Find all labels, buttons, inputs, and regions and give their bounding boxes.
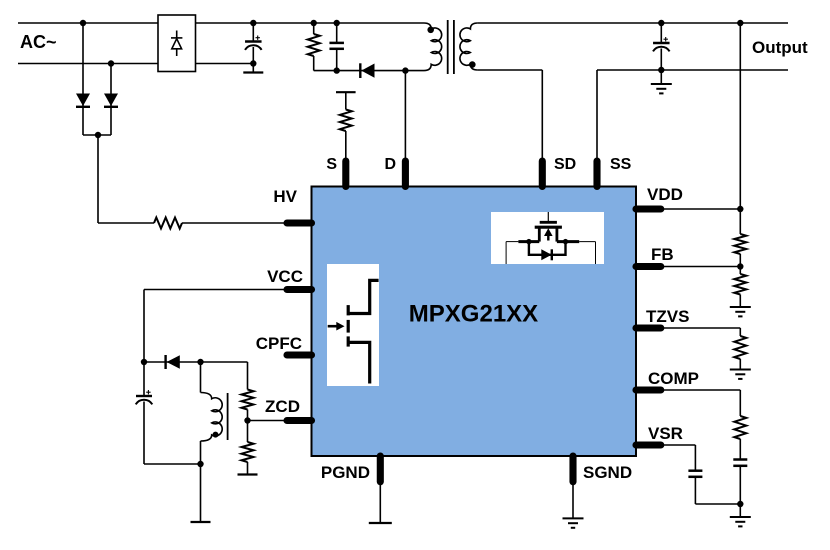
pin SGND: [569, 456, 576, 482]
wire AC line bottom rail: [18, 63, 253, 65]
wire VSR feed: [640, 444, 695, 446]
wire S pin lead: [345, 131, 347, 164]
resistor ZCD upper: [242, 390, 254, 410]
svg-text:HV: HV: [273, 187, 297, 206]
wire snubber R bottom lead: [313, 56, 315, 71]
svg-text:AC~: AC~: [20, 32, 57, 52]
wire HV feed right segment: [182, 222, 300, 224]
wire output top rail: [478, 22, 788, 24]
transformer secondary winding: [460, 23, 478, 70]
resistor FB upper: [734, 234, 746, 254]
node COMP VSR join: [737, 501, 743, 507]
resistor HV series: [154, 218, 182, 229]
terminal ZCD divider return: [238, 473, 258, 475]
diode VCC rectifier: [166, 355, 180, 369]
terminal aux return: [191, 521, 211, 523]
svg-text:VDD: VDD: [647, 185, 683, 204]
wire AC line top rail: [18, 22, 424, 24]
svg-text:CPFC: CPFC: [256, 334, 302, 353]
ground SGND: [563, 518, 584, 527]
wire HV feed left segment: [98, 222, 154, 224]
wire FB pin feed: [640, 266, 740, 268]
wire bulk cap bottom stub: [252, 47, 254, 72]
svg-text:SGND: SGND: [583, 463, 632, 482]
wire snubber C bottom lead: [336, 49, 338, 71]
wire aux winding top lead: [200, 362, 202, 393]
wire TZVS drop: [739, 328, 741, 336]
resistor COMP: [734, 416, 746, 439]
wire bulk cap top stub: [252, 23, 254, 42]
wire COMP drop: [739, 390, 741, 416]
pin TZVS: [636, 324, 661, 331]
terminal bulk cap return: [243, 71, 263, 73]
node bulk cap bottom: [250, 60, 256, 66]
svg-text:TZVS: TZVS: [646, 307, 689, 326]
svg-text:VCC: VCC: [267, 267, 303, 286]
wire VCC diode rail: [144, 361, 248, 363]
transistor internal HV MOSFET: [327, 264, 379, 386]
pin CPFC: [287, 351, 312, 358]
ground TZVS: [730, 370, 751, 379]
node output takeoff: [737, 20, 743, 26]
wire COMP mid lead: [739, 439, 741, 460]
resistor TZVS: [734, 336, 746, 359]
transformer primary winding: [424, 23, 442, 71]
node snubber C tap: [334, 20, 340, 26]
wire SGND lead: [572, 482, 574, 519]
node aux winding top: [197, 359, 203, 365]
wire VSR bottom lead: [694, 477, 696, 504]
node aux polarity dot: [213, 432, 219, 438]
wire VSR join rail: [695, 503, 740, 505]
wire aux bottom rail: [144, 463, 201, 465]
resistor ZCD lower: [242, 442, 254, 462]
pin ZCD: [287, 417, 312, 424]
wire surge diode join: [83, 134, 111, 136]
wire VCC vertical: [143, 290, 145, 363]
svg-text:MPXG21XX: MPXG21XX: [409, 301, 538, 328]
transistor internal SD/SS switch: [491, 212, 604, 264]
node VDD tap: [737, 206, 743, 212]
node FB tap: [737, 263, 743, 269]
node output cap bottom: [658, 67, 664, 73]
capacitor bulk electrolytic: [245, 36, 262, 50]
resistor S series: [340, 110, 352, 132]
wire surge diode branch 2 drop: [110, 64, 112, 136]
wire aux winding bottom lead: [200, 441, 202, 522]
wire VCC cap bottom stub: [143, 402, 145, 465]
capacitor VSR: [688, 471, 702, 477]
svg-text:S: S: [326, 156, 337, 173]
bridge rectifier: [158, 15, 196, 72]
pin PGND: [377, 456, 384, 482]
wire FB divider top: [739, 23, 741, 234]
wire output cap bottom stub: [660, 49, 662, 84]
resistor FB lower: [734, 274, 746, 295]
capacitor COMP: [733, 460, 747, 466]
pin VDD: [636, 205, 661, 212]
wire HV feed vertical: [97, 135, 99, 223]
pin SS: [593, 161, 600, 187]
wire ZCD divider mid: [247, 410, 249, 443]
wire TZVS bottom lead: [739, 359, 741, 369]
svg-text:SS: SS: [610, 156, 632, 173]
transformer core: [448, 20, 454, 74]
wire snubber R top lead: [313, 23, 315, 34]
wire PGND lead: [379, 482, 381, 523]
node VCC cap top: [141, 359, 147, 365]
wire VCC cap top stub: [143, 362, 145, 397]
node bulk cap top: [250, 20, 256, 26]
pin HV: [287, 219, 312, 226]
wire TZVS feed: [640, 327, 740, 329]
node snubber C bottom: [334, 67, 340, 73]
wire snubber C top lead: [336, 23, 338, 43]
terminal S network top: [336, 91, 356, 93]
wire surge diode branch 1 drop: [82, 23, 84, 135]
node drain junction: [402, 67, 408, 73]
svg-text:Output: Output: [752, 38, 808, 57]
capacitor snubber: [329, 43, 344, 49]
svg-text:FB: FB: [651, 245, 674, 264]
svg-text:PGND: PGND: [321, 463, 370, 482]
node aux return: [197, 461, 203, 467]
terminal PGND return: [369, 522, 392, 524]
wire FB divider bottom lead: [739, 295, 741, 307]
node AC top tap: [80, 20, 86, 26]
svg-text:D: D: [384, 156, 396, 173]
pin VSR: [636, 441, 661, 448]
node snubber R tap: [311, 20, 317, 26]
wire FB divider mid: [739, 254, 741, 274]
svg-text:COMP: COMP: [648, 369, 699, 388]
op-amp U1 MPXG21XX body: [312, 187, 637, 457]
wire primary bottom lead: [405, 70, 424, 72]
pin D: [402, 161, 409, 187]
svg-text:VSR: VSR: [648, 424, 683, 443]
capacitor output electrolytic: [653, 37, 670, 51]
capacitor VCC electrolytic: [136, 390, 153, 404]
node surge join: [95, 132, 101, 138]
transformer aux core: [227, 393, 229, 440]
wire S network upper lead: [345, 92, 347, 109]
wire output bottom rail: [597, 69, 788, 71]
wire VDD feed: [640, 208, 740, 210]
diode snubber: [360, 63, 374, 78]
ground COMP: [730, 517, 751, 526]
pin S: [342, 161, 349, 187]
wire ZCD divider bottom lead: [247, 462, 249, 474]
diode surge D1: [76, 94, 90, 107]
wire D pin drop: [404, 71, 406, 164]
wire SD pin drop: [541, 70, 543, 164]
ground FB divider: [730, 307, 751, 316]
resistor snubber: [308, 34, 320, 56]
svg-text:SD: SD: [554, 156, 576, 173]
wire VSR drop: [694, 445, 696, 471]
pin COMP: [636, 386, 661, 393]
inductor aux winding: [201, 393, 223, 442]
wire secondary bottom lead: [478, 69, 543, 71]
wire ZCD divider drop: [247, 362, 249, 390]
wire COMP feed: [640, 389, 740, 391]
svg-text:ZCD: ZCD: [265, 397, 300, 416]
pin SD: [539, 161, 546, 187]
wire COMP bottom lead: [739, 466, 741, 517]
wire VCC feed: [144, 289, 300, 291]
node secondary polarity dot: [469, 61, 476, 68]
node output cap top: [658, 20, 664, 26]
wire ZCD pin feed: [248, 420, 301, 422]
wire snubber bottom rail: [314, 70, 406, 72]
wire SS pin riser: [596, 70, 598, 164]
pin VCC: [287, 286, 312, 293]
ground output return: [651, 84, 672, 93]
pin FB: [636, 263, 661, 270]
diode surge D2: [104, 94, 118, 107]
node ZCD tap: [244, 417, 250, 423]
wire output cap top stub: [660, 23, 662, 44]
node AC bottom tap: [108, 60, 114, 66]
node primary polarity dot: [427, 27, 434, 34]
